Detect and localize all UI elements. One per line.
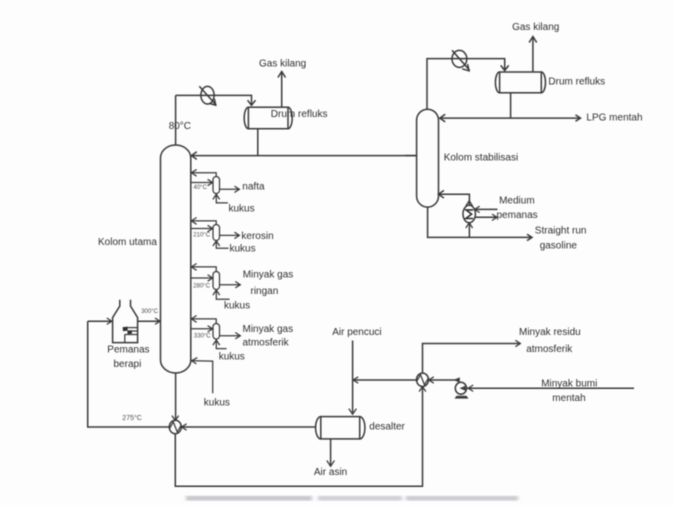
svg-text:kerosin: kerosin bbox=[241, 231, 273, 242]
svg-text:LPG mentah: LPG mentah bbox=[586, 113, 642, 124]
arrow minyak gas atmosferik bbox=[235, 333, 240, 339]
arrow up above reboiler bbox=[466, 201, 473, 206]
svg-text:mentah: mentah bbox=[552, 393, 585, 404]
wire gas kilang right riser bbox=[532, 38, 534, 73]
svg-text:Minyak gas: Minyak gas bbox=[243, 270, 294, 281]
arrow bottom steam into column bbox=[192, 358, 198, 364]
wire S2 product kerosin bbox=[220, 234, 239, 236]
arrow up below reboiler bbox=[466, 223, 473, 228]
wire crude feed to pump bbox=[467, 387, 634, 389]
arrow reflux into stabilizer bbox=[440, 114, 445, 122]
drum D1 left end cap bbox=[244, 107, 248, 129]
wire S3 vapor return bbox=[192, 267, 216, 272]
arrow into heater bbox=[107, 318, 112, 324]
svg-text:Gas kilang: Gas kilang bbox=[512, 22, 559, 33]
svg-text:desalter: desalter bbox=[369, 421, 405, 432]
wire E2 to bottom run bbox=[175, 387, 422, 487]
arrow S3 draw into stripper bbox=[208, 275, 213, 281]
wire drum D1 bottom outlet bbox=[257, 129, 259, 156]
svg-text:Straight run: Straight run bbox=[535, 225, 587, 236]
svg-text:80°C: 80°C bbox=[169, 121, 191, 132]
wire desalter brine outlet bbox=[330, 439, 332, 466]
wire S3 draw from column bbox=[191, 277, 212, 279]
wire column overhead vapor riser bbox=[175, 95, 177, 145]
wire overhead reflux and feed line to stabilizer bbox=[192, 155, 417, 157]
condenser E1 diagonal arrow bbox=[199, 86, 216, 105]
main column vessel Kolom utama bbox=[161, 145, 191, 373]
desalter right end cap bbox=[360, 417, 365, 439]
svg-text:kukus: kukus bbox=[219, 351, 245, 362]
arrow vapor into stabilizer bbox=[439, 190, 444, 198]
arrow into drum D1 top bbox=[248, 100, 256, 105]
pump P1 base bbox=[455, 396, 469, 399]
reboiler E5 sigma coil bbox=[466, 210, 473, 219]
stabilizer column vessel Kolom stabilisasi bbox=[417, 109, 439, 207]
arrow reflux into main column bbox=[191, 152, 196, 160]
reflux drum D1 body bbox=[248, 107, 288, 129]
wire heater outlet to column bbox=[138, 320, 159, 322]
svg-text:Minyak residu: Minyak residu bbox=[519, 327, 581, 338]
arrow residue into E2 top bbox=[172, 416, 179, 421]
svg-text:nafta: nafta bbox=[242, 182, 265, 193]
wire stabilizer feed from main column (junction at overhead line) bbox=[405, 155, 417, 157]
arrow S3 steam into stripper bottom bbox=[213, 290, 220, 295]
wire cold crude riser to heater bbox=[88, 321, 169, 427]
svg-text:kukus: kukus bbox=[224, 301, 250, 312]
arrow minyak residu bbox=[515, 340, 520, 346]
wire column bottom steam kukus bbox=[192, 361, 213, 393]
svg-text:kukus: kukus bbox=[229, 203, 255, 214]
wire S1 draw from column bbox=[191, 182, 212, 184]
stripper S3 vessel bbox=[213, 272, 220, 290]
stripper S1 vessel bbox=[213, 177, 220, 194]
arrow S4 vapor into column bbox=[191, 316, 196, 323]
arrow medium into reboiler bbox=[475, 206, 480, 212]
arrow S4 draw into stripper bbox=[208, 326, 213, 332]
stripper S4 vessel bbox=[213, 324, 220, 340]
svg-text:Gas kilang: Gas kilang bbox=[259, 59, 306, 70]
arrow gas kilang left up bbox=[278, 72, 286, 78]
reboiler E5 circle bbox=[463, 205, 475, 222]
stripper S2 vessel bbox=[213, 225, 220, 241]
wire E3 crude outlet to junction bbox=[353, 379, 416, 381]
wire S1 product nafta bbox=[220, 188, 239, 190]
desalter drum body bbox=[321, 417, 360, 439]
condenser E4 diagonal arrow bbox=[452, 50, 470, 70]
arrow residue into E3 bottom bbox=[419, 387, 426, 392]
wire reflux and LPG product line bbox=[441, 117, 580, 119]
svg-text:Kolom stabilisasi: Kolom stabilisasi bbox=[444, 152, 518, 163]
arrow minyak gas ringan bbox=[235, 282, 240, 288]
wire S1 vapor return bbox=[192, 173, 216, 177]
arrow into desalter top bbox=[349, 409, 357, 415]
wire medium pemanas outlet bbox=[475, 216, 496, 218]
svg-text:kukus: kukus bbox=[204, 397, 230, 408]
wire drum D2 bottom outlet bbox=[510, 93, 512, 118]
svg-text:Air asin: Air asin bbox=[314, 467, 347, 478]
svg-text:275°C: 275°C bbox=[122, 414, 142, 422]
svg-text:210°C: 210°C bbox=[193, 232, 210, 238]
arrow kerosin bbox=[234, 232, 239, 238]
svg-text:Pemanas: Pemanas bbox=[107, 344, 149, 355]
svg-text:berapi: berapi bbox=[114, 359, 142, 370]
wire stabilizer bottoms to straight run gasoline bbox=[428, 207, 531, 238]
desalter left end cap bbox=[316, 417, 321, 439]
drum D1 right end cap bbox=[288, 107, 292, 129]
wire S4 vapor return bbox=[192, 319, 216, 324]
wire medium pemanas inlet bbox=[475, 208, 498, 210]
pump internal arrowhead bbox=[460, 386, 466, 391]
arrow straight run gasoline bbox=[527, 234, 532, 240]
drum D2 right end cap bbox=[541, 72, 545, 93]
svg-text:300°C: 300°C bbox=[141, 309, 158, 315]
arrow crude toward desalter junction bbox=[353, 377, 358, 383]
svg-text:atmosferik: atmosferik bbox=[243, 337, 290, 348]
wire S2 vapor return bbox=[192, 221, 216, 225]
arrow S1 draw into stripper bbox=[208, 179, 213, 185]
E2 zigzag bbox=[170, 422, 181, 432]
condenser E4 circle bbox=[452, 50, 467, 67]
wire gas kilang left riser bbox=[281, 73, 283, 108]
heat exchanger E3 circle bbox=[417, 373, 429, 386]
svg-text:Minyak bumi: Minyak bumi bbox=[541, 378, 597, 389]
arrow crude into E2 right bbox=[182, 424, 187, 430]
pump P1 circle bbox=[455, 382, 466, 394]
arrow gas kilang right up bbox=[529, 37, 537, 43]
condenser E1 circle bbox=[201, 86, 214, 104]
svg-text:280°C: 280°C bbox=[193, 283, 210, 289]
wire S4 product minyak gas atmosferik bbox=[220, 335, 240, 337]
wire reboiler vapor return bbox=[439, 194, 469, 237]
wire E3 residue outlet to product bbox=[423, 344, 520, 374]
wire S2 draw from column bbox=[191, 228, 212, 230]
arrow S4 steam into stripper bottom bbox=[213, 340, 220, 345]
wire S4 steam kukus inlet bbox=[216, 341, 226, 349]
solid arrowhead pump discharge bbox=[454, 377, 460, 382]
wire S3 steam kukus inlet bbox=[216, 291, 229, 299]
svg-text:Kolom utama: Kolom utama bbox=[98, 237, 157, 248]
E3 zigzag bbox=[417, 375, 428, 385]
svg-text:330°C: 330°C bbox=[194, 334, 211, 340]
arrow crude into pump bbox=[468, 385, 473, 391]
svg-text:ringan: ringan bbox=[251, 286, 279, 297]
svg-text:40°C: 40°C bbox=[194, 185, 208, 191]
svg-text:atmosferik: atmosferik bbox=[526, 344, 573, 355]
wire S3 product minyak gas ringan bbox=[220, 284, 240, 286]
wire S4 draw from column bbox=[191, 328, 212, 330]
svg-text:kukus: kukus bbox=[230, 244, 256, 255]
arrow S3 vapor into column bbox=[191, 264, 196, 271]
wire S2 steam kukus inlet bbox=[216, 242, 228, 248]
arrow S1 steam into stripper bottom bbox=[213, 194, 220, 199]
arrow into drum D2 top bbox=[501, 65, 509, 70]
wire pump discharge to E3 bbox=[429, 379, 460, 381]
wire heater inlet bbox=[88, 320, 111, 322]
drum D2 left end cap bbox=[495, 72, 499, 93]
wire wash water and crude into desalter bbox=[352, 341, 354, 413]
arrow LPG mentah bbox=[576, 115, 581, 121]
arrow crude into E3 right bbox=[429, 377, 434, 383]
wire S1 steam kukus inlet bbox=[216, 196, 228, 203]
heater coil downcomer bbox=[124, 335, 126, 343]
arrow S2 steam into stripper bottom bbox=[213, 241, 220, 246]
arrow S2 draw into stripper bbox=[208, 225, 213, 231]
svg-text:Minyak gas: Minyak gas bbox=[243, 324, 294, 335]
arrow nafta bbox=[234, 186, 239, 192]
svg-text:gasoline: gasoline bbox=[540, 240, 578, 251]
svg-text:Medium: Medium bbox=[499, 195, 535, 206]
heater coil return bends (solid) bbox=[123, 327, 128, 332]
svg-text:Drum refluks: Drum refluks bbox=[548, 77, 605, 88]
arrow S1 vapor into column bbox=[191, 169, 196, 176]
svg-text:Air pencuci: Air pencuci bbox=[332, 327, 381, 338]
arrow S2 vapor into column bbox=[191, 218, 196, 225]
fired heater Pemanas berapi body bbox=[113, 300, 138, 343]
reflux drum D2 body bbox=[500, 72, 542, 93]
heat exchanger E2 circle bbox=[169, 420, 181, 433]
wire desalter outlet to E2 bbox=[182, 426, 316, 428]
svg-text:pemanas: pemanas bbox=[497, 210, 538, 221]
bottom cropped caption smear bbox=[186, 496, 518, 500]
arrow heater outlet into column bbox=[155, 318, 160, 324]
svg-text:Drum refluks: Drum refluks bbox=[271, 109, 328, 120]
wire stabilizer overhead riser bbox=[427, 59, 505, 110]
heater coil tube lines bbox=[124, 327, 138, 329]
wire overhead line to condenser E1 and drum D1 bbox=[176, 95, 252, 104]
wire column bottoms to E2 bbox=[175, 373, 177, 421]
arrow air asin down bbox=[327, 461, 335, 467]
arrow medium out bbox=[492, 214, 497, 220]
